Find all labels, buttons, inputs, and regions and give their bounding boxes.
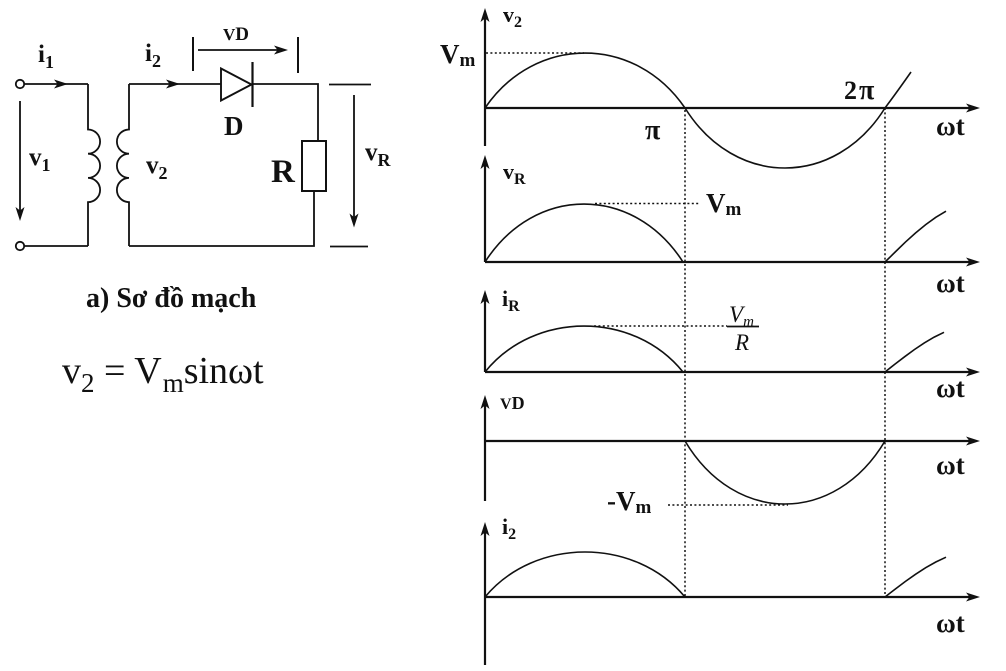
- plot iR : half-sine hump: [485, 326, 683, 372]
- svg-text:ωt: ωt: [936, 268, 965, 298]
- svg-text:v2: v2: [146, 152, 168, 183]
- plot v2 : vertical axis: [481, 8, 490, 146]
- svg-text:i2: i2: [502, 514, 516, 543]
- svg-text:v2 = Vmsinωt: v2 = Vmsinωt: [62, 350, 264, 398]
- resistor R body: [302, 141, 326, 191]
- svg-text:ωt: ωt: [936, 608, 965, 638]
- plot i2 : horizontal axis: [485, 593, 980, 602]
- vD measurement bar right: [297, 37, 299, 73]
- plot v2 : sine tail after 2pi: [885, 72, 911, 108]
- plot vR : half-sine hump: [485, 204, 683, 262]
- vD arrow: [198, 46, 288, 55]
- terminal bottom-left: [16, 242, 24, 250]
- dotted vertical at 2pi: [884, 108, 886, 597]
- terminal top-left: [16, 80, 24, 88]
- v1 arrow: [16, 101, 25, 221]
- plot vR : horizontal axis: [485, 258, 980, 267]
- plot vD : vertical axis: [481, 395, 490, 501]
- svg-text:Vm: Vm: [706, 188, 742, 220]
- wire secondary top with i2 arrow: [129, 80, 221, 89]
- svg-text:2π: 2π: [844, 75, 875, 106]
- svg-text:ωt: ωt: [936, 111, 965, 141]
- plot vD : dotted line to trough: [668, 504, 788, 506]
- wire resistor bottom: [129, 191, 314, 246]
- svg-text:ωt: ωt: [936, 450, 965, 480]
- plot iR : vertical axis: [481, 290, 490, 372]
- svg-text:a) Sơ đồ mạch: a) Sơ đồ mạch: [86, 283, 257, 314]
- plot iR : tail after 2pi: [885, 332, 944, 372]
- svg-text:v1: v1: [29, 144, 51, 175]
- vR arrow: [350, 95, 359, 228]
- diode cathode bar: [251, 62, 253, 107]
- plot i2 : half-sine hump: [485, 552, 685, 597]
- plot v2 : horizontal axis: [485, 104, 980, 113]
- plot i2 : tail after 2pi: [885, 557, 946, 597]
- vR tick top: [329, 84, 371, 86]
- plot vR : vertical axis: [481, 155, 490, 262]
- dotted vertical at pi: [684, 110, 686, 597]
- plot vR : Vm dotted line: [595, 203, 700, 205]
- plot vR : tail after 2pi: [885, 211, 946, 262]
- transformer primary winding: [88, 84, 100, 246]
- WAVEFORMS: [440, 2, 980, 597]
- svg-text:π: π: [645, 115, 661, 146]
- plot iR : dotted line to Vm/R: [594, 325, 727, 327]
- plot vD : horizontal axis: [485, 437, 980, 446]
- vD measurement bar left: [192, 37, 194, 71]
- plot v2 : Vm dotted line: [486, 52, 584, 54]
- svg-text:R: R: [734, 330, 749, 355]
- diode D triangle: [221, 69, 252, 101]
- wire bottom-left: [24, 245, 88, 247]
- svg-text:vR: vR: [365, 139, 392, 170]
- svg-text:D: D: [224, 111, 244, 141]
- plot v2 : sine negative half: [685, 108, 885, 168]
- svg-text:i1: i1: [38, 41, 54, 72]
- svg-text:VD: VD: [223, 24, 249, 45]
- svg-text:VD: VD: [500, 393, 525, 413]
- transformer secondary winding: [117, 84, 129, 246]
- svg-text:ωt: ωt: [936, 373, 965, 403]
- vR tick bottom: [330, 246, 368, 248]
- svg-text:Vm: Vm: [440, 39, 476, 71]
- plot i2 : vertical axis: [481, 522, 490, 665]
- plot vD : negative hump: [685, 441, 885, 504]
- svg-text:v2: v2: [503, 2, 522, 31]
- plot iR : fraction Vm over R: [727, 302, 759, 355]
- plot v2 : sine positive half: [485, 53, 685, 108]
- svg-text:R: R: [271, 154, 296, 190]
- wire top-left with i1 arrow: [24, 80, 88, 89]
- svg-text:iR: iR: [502, 286, 520, 315]
- svg-text:i2: i2: [145, 40, 161, 71]
- svg-text:-Vm: -Vm: [607, 486, 652, 518]
- plot iR : horizontal axis: [485, 368, 980, 377]
- wire diode to resistor: [253, 84, 319, 141]
- svg-text:vR: vR: [503, 159, 526, 188]
